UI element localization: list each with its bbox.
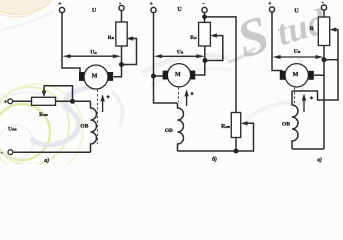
- svg-text:ОВ: ОВ: [282, 121, 290, 127]
- wire: Rov wiper feedback: [238, 123, 254, 151]
- svg-text:U: U: [294, 8, 299, 14]
- coil OB b: [178, 103, 184, 151]
- resistor R box v: [318, 17, 329, 46]
- coil OB a: [91, 101, 97, 152]
- wire: field top from dot to Rov: [205, 17, 237, 113]
- wire right: terminal to R: [323, 10, 325, 17]
- resistor Rov box a: [32, 97, 56, 105]
- junction dot v: [322, 57, 327, 62]
- arrow wiper Rya b: [210, 33, 217, 37]
- svg-text:М: М: [175, 72, 181, 78]
- coil OB v: [292, 91, 298, 149]
- svg-text:Rя: Rя: [190, 35, 197, 41]
- wire: Rya bottom to brush corner: [195, 46, 204, 75]
- flux arrow b: [186, 95, 188, 106]
- watermark Stud text: [231, 1, 332, 70]
- motor M v: [285, 64, 308, 87]
- brush left v: [280, 71, 285, 80]
- arrow wiper Rov a (down): [43, 86, 45, 92]
- svg-text:+: +: [4, 99, 8, 105]
- arrow wiper R v: [330, 27, 337, 31]
- wire right: terminal to Rya box: [121, 11, 123, 22]
- watermark gray wings middle: [142, 56, 228, 74]
- terminal + top a: [59, 7, 64, 12]
- flux arrow a: [102, 100, 104, 112]
- wire: R wiper feedback and field branch: [292, 30, 338, 100]
- terminal + top v: [269, 7, 274, 12]
- Uya arrow a: [69, 55, 115, 57]
- svg-text:+: +: [58, 1, 62, 7]
- flux label blob a: [106, 95, 110, 99]
- svg-text:ОВ: ОВ: [165, 128, 173, 134]
- junction dot a field: [70, 99, 75, 104]
- svg-text:U: U: [177, 7, 182, 13]
- wire right: terminal to Rya: [204, 13, 206, 23]
- watermark big pale S swirl left: [31, 86, 100, 145]
- brush left a: [79, 72, 84, 81]
- terminal - top v: [321, 5, 326, 10]
- svg-text:в): в): [317, 156, 322, 163]
- svg-text:ОВ: ОВ: [80, 124, 88, 130]
- wire: bottom rail: [292, 148, 324, 150]
- svg-text:U: U: [92, 8, 97, 14]
- svg-text:М: М: [92, 74, 98, 80]
- junction dot b left: [151, 74, 156, 79]
- wire right: R to bottom rail: [323, 46, 325, 150]
- brush left b: [163, 71, 168, 80]
- brush right a: [108, 72, 113, 81]
- watermark flower bottom-left: [0, 104, 50, 160]
- watermark arc right: [297, 56, 304, 95]
- terminal + field a: [8, 99, 13, 104]
- svg-text:Uя: Uя: [294, 49, 301, 55]
- wire: Rov wiper feedback: [44, 86, 73, 102]
- flux label blob v: [310, 96, 314, 100]
- svg-text:б): б): [212, 156, 217, 163]
- flux arrow v: [303, 100, 305, 113]
- svg-text:Rов: Rов: [221, 124, 231, 130]
- wire: bottom rail to coil: [178, 150, 237, 152]
- watermark pale blue band top-left: [0, 11, 54, 30]
- resistor Rov box b: [231, 113, 240, 138]
- terminal + top b: [151, 7, 156, 12]
- motor M a: [84, 65, 108, 89]
- dashed flux line b: [178, 87, 180, 102]
- flux label blob b: [190, 92, 194, 96]
- brush right v: [309, 71, 314, 80]
- Uya arrow b: [160, 55, 199, 57]
- wire: dot to left brush: [154, 75, 163, 77]
- wire: brush to main: [314, 74, 324, 76]
- svg-text:+: +: [268, 1, 272, 7]
- junction dot b bottom: [234, 149, 239, 154]
- junction dot a right: [119, 62, 124, 67]
- arrow wiper Rya a: [126, 36, 133, 40]
- svg-text:М: М: [293, 72, 299, 78]
- wire left: terminal down to coil corner: [154, 13, 178, 103]
- wire: Rov to coil OB: [56, 100, 91, 102]
- svg-text:Uя: Uя: [177, 49, 184, 55]
- svg-text:+: +: [149, 1, 153, 7]
- wire: field supply to Rov: [13, 100, 32, 102]
- terminal - top a: [119, 5, 124, 10]
- wire left: terminal to brush: [62, 13, 80, 73]
- wire: Rov bottom to rail: [235, 138, 237, 152]
- svg-text:Rов: Rов: [39, 112, 48, 118]
- Uya arrow v: [279, 56, 318, 58]
- junction dot b mid: [203, 58, 208, 63]
- arrow wiper Rov b: [241, 121, 248, 125]
- svg-text:Rя: Rя: [108, 35, 115, 41]
- brush right b: [190, 71, 195, 80]
- svg-text:Uов: Uов: [8, 126, 17, 132]
- dashed flux line v: [294, 88, 296, 104]
- resistor Rya box b: [199, 22, 211, 46]
- terminal - top b: [202, 7, 207, 12]
- junction dot b top: [202, 15, 207, 20]
- watermark beige patch top-left: [0, 0, 52, 15]
- terminal - field a: [8, 150, 13, 155]
- motor M b: [167, 64, 190, 87]
- svg-text:Uя: Uя: [90, 50, 97, 56]
- svg-text:а): а): [44, 157, 49, 164]
- wire: Rya wiper feedback: [124, 39, 137, 65]
- wire: Rya box to junction and brush corner: [113, 46, 121, 77]
- wire left: terminal to brush: [272, 12, 282, 71]
- dashed flux line a: [96, 90, 98, 144]
- resistor Rya box a: [116, 22, 127, 46]
- wire: Rya wiper feedback: [207, 36, 223, 61]
- wire: dot link: [326, 59, 338, 61]
- wire: bottom rail field: [13, 151, 90, 153]
